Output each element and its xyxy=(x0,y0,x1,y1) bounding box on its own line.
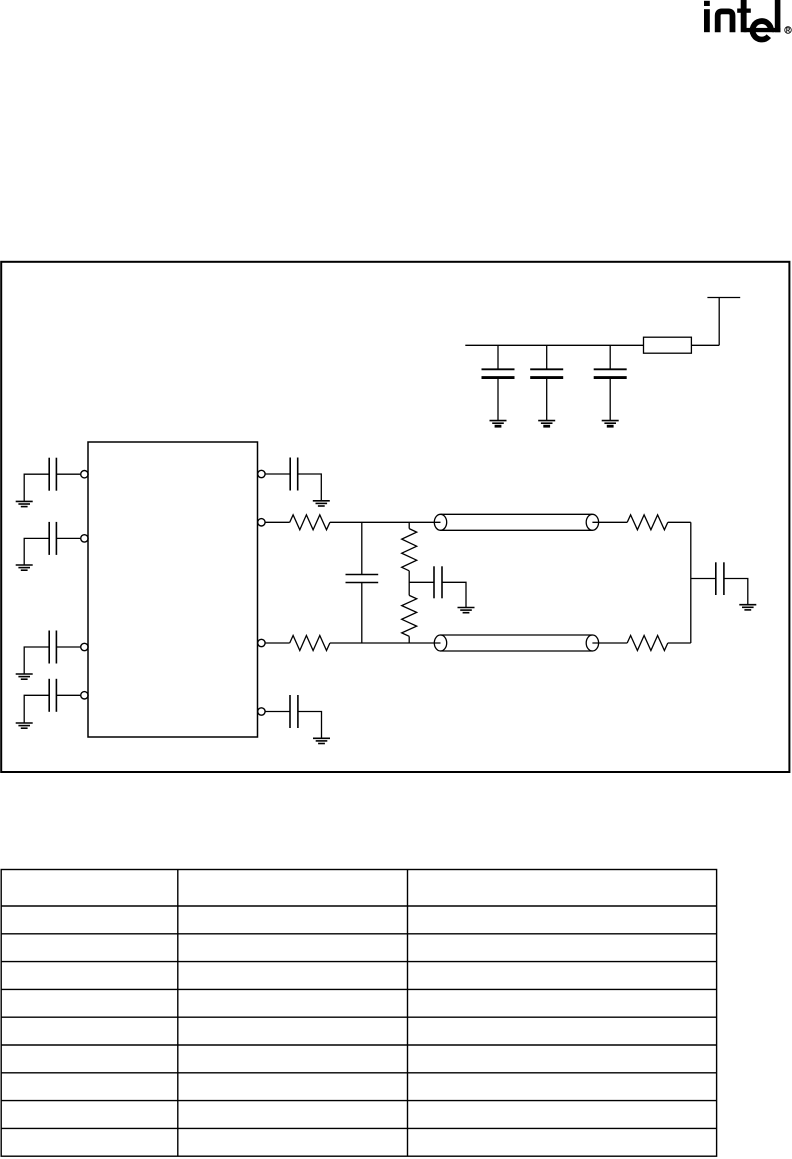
logo letter e with bar xyxy=(744,28,781,32)
wire pin to capacitor C5 xyxy=(265,473,290,475)
wire R1 to transmission line TL1 xyxy=(330,521,441,523)
IC U1 xyxy=(88,442,258,737)
ground for C9 xyxy=(490,421,507,427)
ground for C1 xyxy=(16,501,33,506)
transmission line TL2 xyxy=(434,635,598,651)
ground for C4 xyxy=(16,723,33,728)
wire C3 to ground xyxy=(24,647,49,674)
wire top rail to resistor R3 xyxy=(408,522,410,528)
wire C12 to ground xyxy=(298,712,322,739)
wire rail to capacitor C9 xyxy=(497,345,499,369)
ground for C11 xyxy=(602,421,619,427)
ground for C12 xyxy=(313,738,330,743)
wire C4 to ground xyxy=(24,695,49,723)
wire C2 to ground xyxy=(24,538,49,565)
capacitor C6 xyxy=(346,575,379,583)
wire node A to capacitor C7 xyxy=(409,581,434,583)
wire rail to capacitor C11 xyxy=(609,345,611,369)
wire TL1 to resistor R5 xyxy=(592,521,627,523)
ground for C10 xyxy=(538,421,555,427)
logo letter n xyxy=(718,11,733,32)
capacitor C7 xyxy=(434,566,442,598)
wire junction to capacitor C8 xyxy=(691,578,716,580)
wire R6 to junction xyxy=(668,642,691,644)
pin circle right 3 xyxy=(258,639,265,646)
capacitor C12 xyxy=(290,695,298,728)
capacitor C3 xyxy=(49,631,56,664)
resistor R1 xyxy=(290,515,330,530)
wire C6 to bottom rail xyxy=(361,583,363,644)
wire pin to resistor R1 xyxy=(266,521,290,523)
pin circle left 3 xyxy=(81,643,88,650)
wire pin to capacitor C3 xyxy=(56,646,80,648)
resistor R5 xyxy=(627,515,668,530)
ground for C2 xyxy=(16,565,33,570)
pin circle left 4 xyxy=(81,692,88,699)
resistor R4 xyxy=(402,595,417,636)
intel logo xyxy=(704,0,791,40)
ground for C5 xyxy=(313,501,330,506)
wire ferrite to VCC xyxy=(691,344,719,346)
wire R4 to bottom rail xyxy=(408,636,410,643)
capacitor C5 xyxy=(290,458,298,491)
resistor R2 xyxy=(290,636,330,651)
figure frame xyxy=(1,262,789,772)
wire R2 to transmission line TL2 xyxy=(330,642,441,644)
pin circle left 1 xyxy=(81,471,88,478)
wire pin to capacitor C12 xyxy=(265,711,290,713)
wire rail to capacitor C10 xyxy=(546,345,548,369)
wire TL2 to resistor R6 xyxy=(592,642,627,644)
wire C9 to ground xyxy=(497,378,499,421)
registered trademark xyxy=(785,27,792,34)
VCC supply T-bar xyxy=(707,298,740,346)
polarized capacitor C10 xyxy=(530,369,563,377)
capacitor C2 xyxy=(49,522,56,555)
transmission line TL1 xyxy=(434,514,598,530)
junction vertical wire xyxy=(690,522,692,643)
wire R5 to junction xyxy=(668,521,691,523)
wire R3 to node A xyxy=(408,571,410,596)
ground for C8 xyxy=(739,605,756,610)
wire pin to capacitor C4 xyxy=(56,694,80,696)
wire pin to resistor R2 xyxy=(266,642,290,644)
ground for C3 xyxy=(16,674,33,679)
pin circle right 1 xyxy=(258,470,265,477)
pin circle right 4 xyxy=(258,708,265,715)
wire C7 to ground xyxy=(442,582,466,607)
capacitor C1 xyxy=(49,458,56,491)
wire C10 to ground xyxy=(546,378,548,421)
wire C1 to ground xyxy=(24,474,49,501)
ground for C7 xyxy=(458,608,475,613)
pin circle right 2 xyxy=(258,519,265,526)
resistor R6 xyxy=(627,636,668,651)
logo letter l xyxy=(775,0,781,32)
resistor R3 xyxy=(402,529,417,571)
capacitor C4 xyxy=(49,679,56,712)
logo letter t xyxy=(741,0,747,32)
ferrite bead FB1 xyxy=(644,337,692,353)
wire top rail to capacitor C6 xyxy=(361,522,363,574)
power rail wire xyxy=(465,344,643,346)
wire C5 to ground xyxy=(298,474,322,501)
pin circle left 2 xyxy=(81,535,88,542)
wire C8 to ground xyxy=(724,579,748,605)
polarized capacitor C9 xyxy=(482,369,515,377)
logo letter i xyxy=(704,1,710,6)
capacitor C8 xyxy=(716,562,724,595)
polarized capacitor C11 xyxy=(594,369,627,377)
wire pin to capacitor C1 xyxy=(56,473,80,475)
wire pin to capacitor C2 xyxy=(56,537,80,539)
wire C11 to ground xyxy=(609,378,611,421)
table grid xyxy=(1,870,716,1157)
